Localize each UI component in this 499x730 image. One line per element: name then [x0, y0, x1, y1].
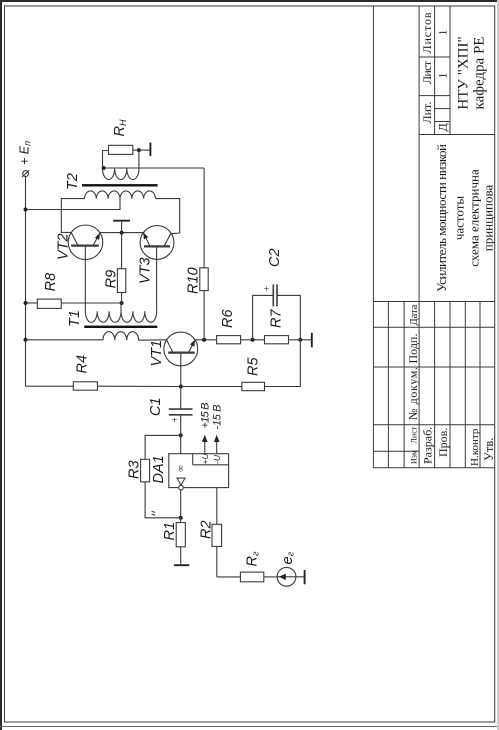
node N1 bias — [120, 301, 124, 305]
resistor R1 — [176, 523, 185, 547]
svg-text:R1: R1 — [162, 522, 178, 541]
transformer T2 secondary winding — [103, 169, 140, 180]
wire: rail to R4 — [26, 385, 74, 387]
svg-text:Разраб.: Разраб. — [421, 427, 435, 464]
transformer T1 primary winding — [103, 332, 139, 341]
svg-text:схема електрична: схема електрична — [467, 169, 482, 267]
svg-text:R8: R8 — [43, 273, 59, 292]
wire: N1 to R9 — [121, 293, 123, 304]
capacitor C2 — [262, 248, 283, 306]
svg-text:DA1: DA1 — [151, 455, 167, 483]
wire: VT1 base lead — [180, 353, 182, 387]
svg-text:Лист: Лист — [420, 60, 434, 84]
resistor R6 — [217, 336, 241, 344]
node: inverting input / R1 / R3 — [179, 516, 183, 520]
svg-text:Пров.: Пров. — [436, 428, 450, 457]
resistor Rg — [240, 572, 263, 582]
title block columns — [373, 467, 494, 469]
wire: VT3 base to T1 secondary bottom — [156, 246, 158, 311]
wire: +Ep top rail — [25, 176, 27, 386]
wire: inverting input — [180, 490, 182, 518]
svg-text:R5: R5 — [246, 357, 262, 376]
svg-text:eг: eг — [280, 551, 296, 564]
svg-text:R7: R7 — [269, 309, 285, 328]
resistor R9 — [117, 269, 125, 293]
wire: T2 secondary bottom to Rn bottom — [138, 150, 140, 168]
transformer T1 core — [84, 326, 157, 328]
wire: Rg to source — [264, 576, 277, 578]
node: emitter common / R9 / ground — [120, 231, 124, 235]
wire: VT2 collector to T2 primary top — [61, 199, 84, 233]
wire: VT3 collector to T2 primary bottom — [156, 199, 180, 234]
transistor VT1 — [149, 332, 198, 366]
wire: VT2 base to T1 secondary top — [84, 246, 86, 312]
svg-text:RН: RН — [112, 119, 128, 136]
svg-text:C1: C1 — [148, 397, 164, 416]
ground at Rn — [139, 143, 151, 156]
svg-text:1: 1 — [436, 30, 450, 36]
node: VT1 base / R4 / R5 / C1 — [179, 385, 183, 389]
wire: VT1 emitter to R6 — [195, 339, 217, 341]
transformer T2 primary winding — [85, 191, 156, 199]
node: rail to T2 center tap junction — [24, 208, 28, 212]
svg-text:Лит.: Лит. — [420, 102, 434, 124]
node: T2 secondary top / feedback — [102, 166, 106, 170]
svg-text:Подп.: Подп. — [406, 334, 420, 364]
svg-text:C2: C2 — [267, 248, 283, 267]
svg-text:R2: R2 — [199, 520, 215, 539]
wire: R4 to VT1 base node — [97, 385, 180, 387]
title block outline and rows — [372, 6, 374, 468]
node: rail to R8 junction — [24, 301, 28, 305]
node: VT1 emitter / R10 — [202, 338, 206, 342]
svg-text:R6: R6 — [220, 309, 236, 328]
source eg — [277, 551, 296, 586]
resistor R10 — [200, 268, 208, 291]
svg-text:VT2: VT2 — [55, 233, 71, 260]
wire: VT2 emitter common — [100, 232, 145, 234]
svg-text:+: + — [262, 286, 273, 292]
wire: T2 primary center tap to rail — [26, 199, 121, 210]
wire: C1 right to VT1 base node — [180, 387, 182, 410]
svg-text:частоты: частоты — [452, 196, 467, 241]
terminal +Ep — [22, 170, 29, 177]
svg-text:Н.контр: Н.контр — [469, 428, 481, 466]
svg-text:∞: ∞ — [177, 465, 187, 472]
resistor R4 — [73, 382, 97, 390]
svg-text:-15 В: -15 В — [211, 405, 223, 430]
wire: T1 center tap to N1 — [120, 303, 123, 311]
svg-text:Rг: Rг — [245, 551, 261, 566]
resistor R7 — [265, 336, 289, 344]
resistor R8 — [37, 299, 61, 308]
svg-text:-U: -U — [212, 454, 222, 464]
svg-text:Лист: Лист — [410, 426, 419, 443]
transistor VT3 — [138, 226, 174, 284]
tick marks — [152, 511, 156, 515]
svg-text:+: + — [170, 417, 181, 423]
wire: R7 to node B — [289, 339, 301, 341]
svg-text:кафедра РЕ: кафедра РЕ — [472, 37, 488, 110]
wire: C2 branch top — [253, 295, 274, 339]
wire: R9 to emitter common — [121, 233, 123, 269]
transformer T1 secondary winding — [85, 311, 156, 322]
wire: C1 left to DA1 output node — [180, 415, 182, 436]
svg-text:VT3: VT3 — [138, 257, 154, 284]
node: rail to T1 primary junction — [24, 338, 28, 342]
wire: R3 loop — [145, 482, 181, 518]
svg-text:Утв.: Утв. — [482, 438, 496, 461]
op-amp DA1 — [151, 453, 229, 490]
transistor VT2 — [55, 225, 102, 260]
wire: feedback vertical from T2 secondary — [104, 167, 205, 169]
DA1 supply pin -15V — [211, 405, 223, 454]
wire: R8 to node N1 — [61, 302, 121, 304]
wire: R10 right to feedback line — [203, 168, 205, 268]
wire: R8 branch from rail to bias node — [26, 302, 38, 304]
wire: Rn bottom junction — [133, 149, 139, 151]
transformer T2 core — [82, 184, 158, 186]
resistor R2 — [212, 524, 222, 546]
node B — [298, 338, 302, 342]
svg-text:Изм: Изм — [410, 450, 419, 464]
wire: T1 primary bottom to VT1 collector — [139, 339, 167, 341]
svg-text:Листов: Листов — [420, 12, 434, 53]
wire: R2 left to source branch corner — [216, 546, 218, 577]
node A — [251, 338, 255, 342]
node: DA1 output / R3 — [179, 433, 183, 437]
resistor R3 feedback — [141, 459, 150, 482]
DA1 supply pin +15V — [200, 403, 212, 454]
ground at eg — [296, 570, 305, 584]
svg-text:+U: +U — [200, 453, 210, 465]
resistor Rn load — [109, 145, 133, 154]
svg-text:Д: Д — [436, 123, 450, 131]
wire: non-inverting input — [216, 488, 218, 525]
svg-text:R4: R4 — [75, 355, 91, 374]
svg-text:НТУ "ХПІ": НТУ "ХПІ" — [456, 36, 472, 109]
resistor R5 — [242, 382, 265, 390]
node: Rn bottom / ground — [137, 148, 141, 152]
wire: down to Rg — [217, 576, 241, 578]
svg-text:R3: R3 — [127, 460, 143, 479]
svg-text:T1: T1 — [67, 310, 83, 327]
wire: R1 to inverting node — [180, 518, 182, 523]
ground at node B — [300, 333, 312, 348]
ground at emitters — [113, 221, 130, 233]
wire: DA1 output lead — [180, 435, 182, 453]
svg-text:+ Eп: + Eп — [18, 141, 33, 165]
svg-text:R9: R9 — [104, 270, 120, 289]
svg-text:Дата: Дата — [409, 304, 420, 325]
wire: R10 left to VT1 emitter — [203, 291, 205, 340]
svg-text:№ докум.: № докум. — [406, 367, 420, 420]
svg-text:VT1: VT1 — [149, 340, 165, 367]
svg-text:принципова: принципова — [481, 185, 496, 252]
title block — [373, 6, 494, 468]
wire: C2 branch bottom — [277, 295, 300, 339]
svg-text:Усилитель мощности низкой: Усилитель мощности низкой — [434, 144, 449, 292]
capacitor C1 — [148, 397, 193, 422]
svg-text:1: 1 — [436, 73, 450, 79]
wire: R5 branch — [181, 386, 242, 388]
svg-text:R10: R10 — [186, 267, 202, 294]
svg-text:T2: T2 — [65, 173, 81, 190]
ground at R1 — [174, 547, 189, 565]
wire: T2 secondary top to Rn — [103, 151, 109, 169]
page edge artifacts — [0, 0, 499, 2]
svg-text:+15 В: +15 В — [200, 403, 212, 429]
wire: R6 to node A — [241, 339, 265, 341]
wire: T1 primary top to rail — [26, 339, 103, 341]
